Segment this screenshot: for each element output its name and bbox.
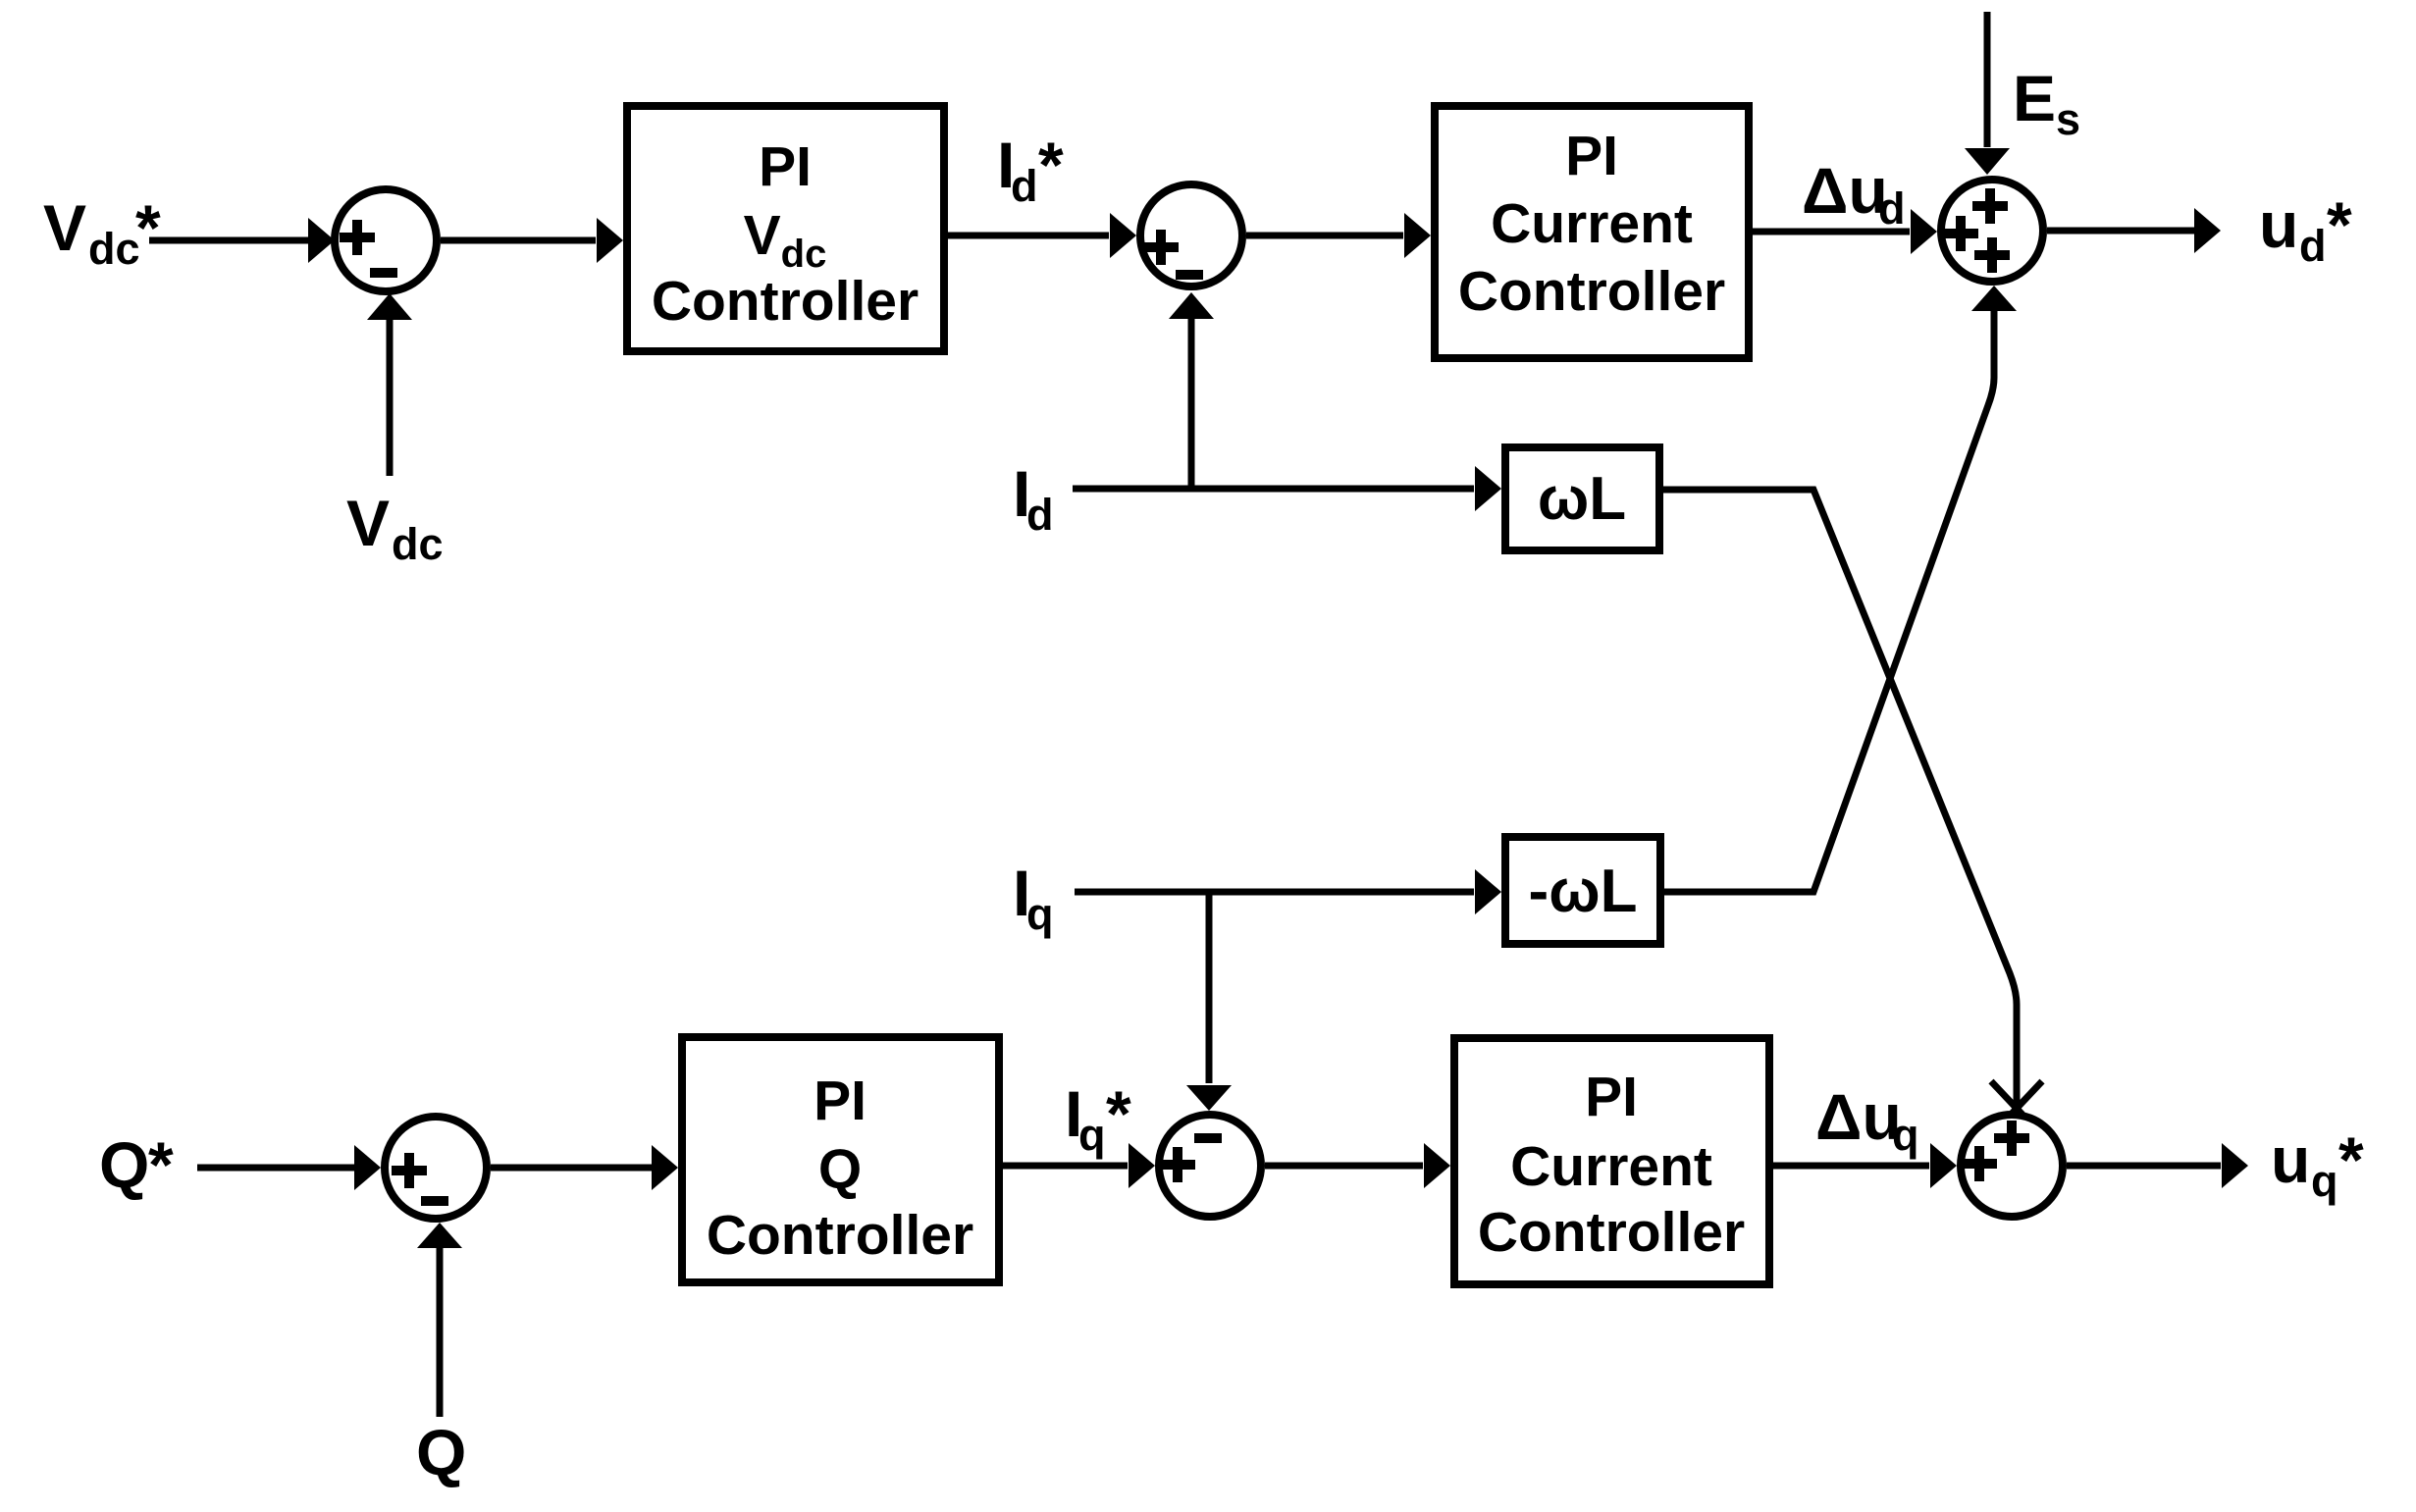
- svg-text:Controller: Controller: [1478, 1201, 1745, 1264]
- svg-text:V: V: [346, 487, 390, 559]
- svg-text:q: q: [1078, 1110, 1106, 1160]
- node Iq feedback label: [1013, 857, 1054, 939]
- wire PI Vdc Controller to summing junction S2: [948, 213, 1136, 258]
- svg-text:dc: dc: [392, 519, 444, 569]
- svg-text:s: s: [2056, 94, 2080, 144]
- svg-text:d: d: [2299, 221, 2327, 271]
- wire Iq branch down into S5: [1186, 892, 1232, 1111]
- svg-text:PI: PI: [1585, 1066, 1638, 1128]
- block U3 wL: [1505, 447, 1659, 550]
- node Vdc feedback label: [346, 487, 444, 569]
- wire S3 to ud* output: [2047, 208, 2221, 253]
- svg-text:u: u: [2271, 1123, 2310, 1196]
- node Q* input label: [99, 1128, 174, 1201]
- wire S4q to PI Q Controller: [491, 1145, 678, 1190]
- svg-text:d: d: [1026, 490, 1054, 540]
- svg-text:*: *: [1106, 1077, 1131, 1150]
- wire Q feedback arrow into S4q: [417, 1223, 462, 1417]
- summing junction S1 (Vdc* + / Vdc -): [335, 189, 437, 291]
- summing junction S4q (Q* + / Q -): [385, 1117, 487, 1219]
- wire Id feedback horizontal to wL block: [1073, 466, 1501, 511]
- svg-text:Current: Current: [1491, 192, 1693, 255]
- svg-text:Δu: Δu: [1802, 154, 1888, 227]
- svg-text:-ωL: -ωL: [1529, 858, 1638, 925]
- svg-text:d: d: [1011, 161, 1038, 211]
- svg-text:PI: PI: [759, 135, 812, 198]
- summing junction S2 (Id* + / Id -): [1140, 184, 1242, 287]
- wire PI Q Controller to summing junction S5: [1003, 1143, 1155, 1188]
- svg-text:Controller: Controller: [707, 1204, 973, 1267]
- node Id* label: [997, 129, 1064, 211]
- node ud* output label: [2259, 188, 2352, 271]
- svg-text:Q: Q: [818, 1138, 862, 1201]
- svg-text:PI: PI: [1565, 125, 1618, 187]
- svg-text:ωL: ωL: [1538, 465, 1626, 533]
- wire Vdc feedback arrow into S1: [367, 293, 412, 476]
- node Id feedback label: [1013, 457, 1054, 540]
- node Es label: [2013, 62, 2080, 144]
- summing junction S6 (Delta-uq + / wL Id +): [1961, 1115, 2063, 1217]
- node uq* output label: [2271, 1123, 2364, 1206]
- svg-text:Current: Current: [1510, 1135, 1712, 1198]
- wire -wL output crossing up to S3: [1664, 286, 2017, 892]
- svg-text:*: *: [148, 1128, 174, 1201]
- node Q feedback label: [416, 1416, 466, 1488]
- wire Id branch up into S2: [1169, 292, 1214, 489]
- wire Es input arrow into S3: [1965, 12, 2010, 175]
- svg-text:Δu: Δu: [1815, 1080, 1902, 1153]
- svg-text:u: u: [2259, 188, 2298, 261]
- svg-text:d: d: [1878, 183, 1906, 234]
- summing junction S5 (Iq* + / Iq -): [1159, 1115, 1261, 1217]
- svg-text:Q: Q: [99, 1128, 149, 1201]
- wire Q* to summing junction S4q: [197, 1145, 381, 1190]
- wire wL output crossing down to S4: [1663, 490, 2042, 1115]
- svg-text:*: *: [2338, 1123, 2364, 1196]
- summing junction S3 (Delta-ud + / Es + / -wL Iq +): [1941, 180, 2043, 282]
- svg-text:*: *: [2327, 188, 2352, 261]
- node Iq* label: [1065, 1077, 1131, 1160]
- svg-text:*: *: [1038, 129, 1064, 201]
- svg-text:E: E: [2013, 62, 2056, 134]
- block U1 PI Vdc Controller: [627, 106, 944, 351]
- wire S6 to uq* output: [2067, 1143, 2248, 1188]
- block U6 PI Current Controller (q-axis): [1454, 1038, 1769, 1284]
- svg-text:dc: dc: [88, 224, 140, 274]
- svg-text:*: *: [135, 191, 161, 264]
- svg-text:Controller: Controller: [1458, 260, 1725, 323]
- node Delta-ud label: [1802, 154, 1906, 234]
- wire S5 to PI Current Controller (q-axis): [1265, 1143, 1450, 1188]
- wire Vdc* to summing junction S1: [149, 218, 335, 263]
- node Delta-uq label: [1815, 1080, 1919, 1160]
- block U4 -wL: [1505, 837, 1660, 944]
- svg-text:Controller: Controller: [652, 270, 919, 333]
- svg-text:Q: Q: [416, 1416, 466, 1488]
- wire PI Current Controller to summing junction S6: [1773, 1143, 1957, 1188]
- svg-text:PI: PI: [814, 1069, 867, 1132]
- wire Iq feedback horizontal to -wL block: [1075, 869, 1501, 914]
- block U5 PI Q Controller: [682, 1037, 999, 1282]
- wire S2 to PI Current Controller (d-axis): [1246, 213, 1431, 258]
- svg-text:q: q: [2311, 1156, 2338, 1206]
- svg-text:q: q: [1892, 1110, 1919, 1160]
- wire S1 to PI Vdc Controller: [441, 218, 623, 263]
- svg-text:q: q: [1026, 889, 1054, 939]
- wire PI Current Controller to summing junction S3: [1753, 209, 1937, 254]
- svg-text:V: V: [43, 191, 86, 264]
- block U2 PI Current Controller (d-axis): [1435, 106, 1749, 358]
- node Vdc* input label: [43, 191, 161, 274]
